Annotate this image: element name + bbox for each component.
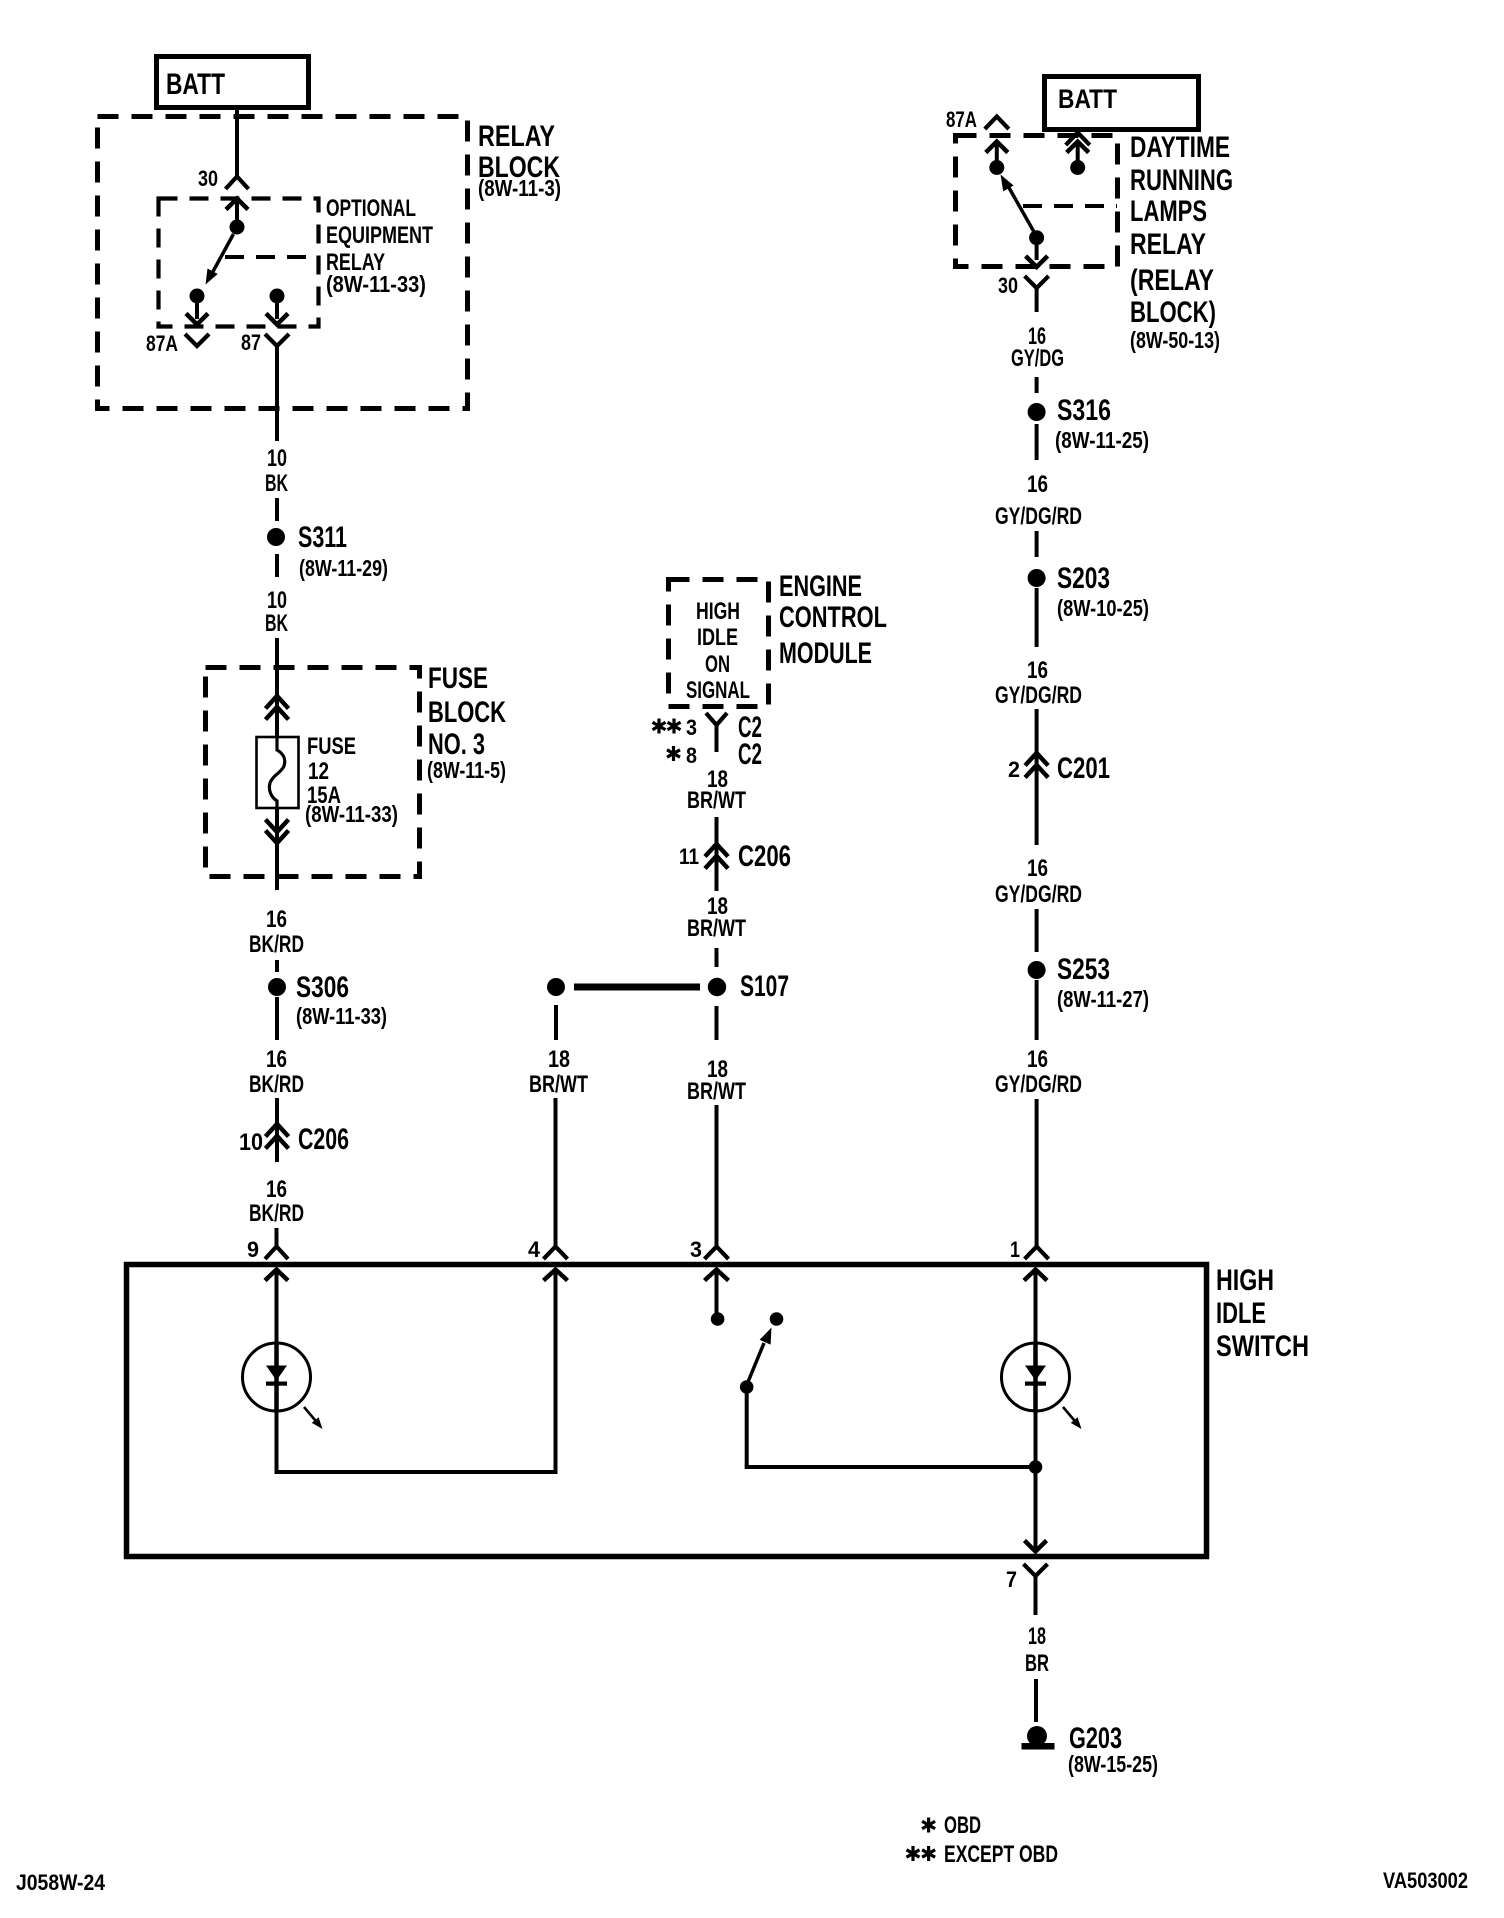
wire into ground G203 bbox=[1034, 1679, 1038, 1722]
svg-text:BK/RD: BK/RD bbox=[249, 1200, 304, 1227]
svg-text:87: 87 bbox=[241, 330, 261, 355]
svg-text:FUSE: FUSE bbox=[307, 733, 356, 760]
svg-text:30: 30 bbox=[198, 166, 218, 191]
svg-text:EQUIPMENT: EQUIPMENT bbox=[326, 222, 433, 249]
wire label 10 BK (lower) bbox=[265, 587, 288, 637]
fuse F12 element (s-curve) bbox=[269, 737, 284, 808]
splice S203 bbox=[1028, 569, 1046, 587]
wire segment above C206 left bbox=[275, 1098, 279, 1124]
splice S311 bbox=[267, 528, 285, 546]
wire label 16 GY/DG/RD (3) bbox=[995, 855, 1082, 908]
svg-text:C206: C206 bbox=[738, 840, 791, 873]
label G203 (8W-15-25) bbox=[1068, 1722, 1158, 1777]
pin 3 terminal arrow inside box bbox=[705, 1270, 729, 1314]
svg-text:RELAY: RELAY bbox=[478, 120, 555, 153]
relay internal dashed divider bbox=[225, 255, 318, 259]
wire segment above S107 bbox=[715, 948, 719, 967]
svg-text:(8W-11-5): (8W-11-5) bbox=[427, 757, 506, 783]
svg-text:FUSE: FUSE bbox=[428, 662, 488, 695]
label DAYTIME RUNNING LAMPS RELAY (RELAY BLOCK) (8W-50-13) bbox=[1130, 131, 1233, 353]
switch blade S1 bbox=[747, 1328, 772, 1386]
svg-text:IDLE: IDLE bbox=[697, 624, 738, 651]
wire LED2 through junction to pin 7 bbox=[1034, 1411, 1038, 1549]
power feed box BATT (right) bbox=[1045, 77, 1199, 130]
wire label 18 BR/WT (1) bbox=[687, 766, 746, 814]
indicator lamp LED2 (right) bbox=[1002, 1343, 1070, 1411]
wire segment above S306 bbox=[275, 960, 279, 972]
relay U2 coil-side contact node bbox=[1070, 160, 1085, 175]
svg-text:OPTIONAL: OPTIONAL bbox=[326, 195, 416, 222]
svg-text:(8W-15-25): (8W-15-25) bbox=[1068, 1751, 1158, 1777]
svg-text:C2: C2 bbox=[738, 738, 762, 771]
svg-text:8: 8 bbox=[686, 743, 697, 768]
power feed box BATT (left) bbox=[157, 57, 309, 108]
label ENGINE CONTROL MODULE bbox=[779, 570, 887, 670]
svg-text:3: 3 bbox=[690, 1237, 702, 1262]
svg-text:S253: S253 bbox=[1057, 953, 1110, 986]
svg-text:BR/WT: BR/WT bbox=[687, 1078, 746, 1105]
switch throw contact node bbox=[770, 1312, 784, 1326]
connector half (female) 87A right bbox=[985, 117, 1009, 130]
svg-text:MODULE: MODULE bbox=[779, 637, 872, 670]
relay U2 pin-30 terminal arrow bbox=[1026, 244, 1048, 267]
wire label 18 BR/WT (2) bbox=[687, 893, 746, 942]
svg-text:(8W-11-3): (8W-11-3) bbox=[478, 175, 561, 201]
wire segment below S306 bbox=[275, 997, 279, 1040]
splice S107 bbox=[708, 978, 726, 996]
svg-text:BR/WT: BR/WT bbox=[687, 787, 746, 814]
wire branch down to pin 4 bbox=[554, 1098, 558, 1228]
svg-text:HIGH: HIGH bbox=[696, 598, 740, 625]
wire segment below S253 bbox=[1035, 980, 1039, 1040]
relay U2 87A terminal arrow bbox=[986, 142, 1008, 162]
connector half (female) 87 bbox=[265, 334, 289, 346]
svg-text:BK/RD: BK/RD bbox=[249, 931, 304, 958]
wire LED1 to pin 4 (L-path) bbox=[275, 1269, 556, 1474]
splice S253 bbox=[1028, 961, 1046, 979]
branch wire S107 to left bbox=[574, 984, 700, 991]
svg-text:DAYTIME: DAYTIME bbox=[1130, 131, 1230, 164]
svg-text:ON: ON bbox=[705, 651, 730, 678]
wire segment below S107 bbox=[715, 1006, 719, 1040]
label OPTIONAL EQUIPMENT RELAY (8W-11-33) bbox=[326, 195, 433, 297]
relay internal dashed divider (right) bbox=[1023, 204, 1117, 208]
svg-text:7: 7 bbox=[1006, 1567, 1017, 1592]
label HIGH IDLE ON SIGNAL bbox=[686, 598, 750, 704]
wire BATT to relay pin 30 bbox=[235, 107, 239, 176]
svg-text:11: 11 bbox=[679, 844, 699, 869]
svg-text:LAMPS: LAMPS bbox=[1130, 195, 1207, 228]
svg-text:ENGINE: ENGINE bbox=[779, 570, 862, 603]
svg-text:S311: S311 bbox=[298, 521, 347, 554]
wire label 16 GY/DG bbox=[1011, 323, 1064, 372]
wire label 16 BK/RD (3) bbox=[249, 1176, 304, 1227]
label S203 (8W-10-25) bbox=[1057, 562, 1149, 621]
label RELAY BLOCK (8W-11-3) bbox=[478, 120, 561, 201]
branch node left of S107 bbox=[547, 978, 565, 996]
wire down to pin 3 bbox=[715, 1105, 719, 1247]
pin 9 terminal arrow inside box bbox=[265, 1270, 288, 1344]
connector C206 chevrons (middle) bbox=[705, 840, 728, 891]
relay U2 BATT terminal arrow bbox=[1067, 142, 1089, 162]
relay 87 terminal arrow bbox=[266, 303, 288, 325]
label HIGH IDLE SWITCH bbox=[1216, 1264, 1309, 1363]
wire segment below S316 bbox=[1035, 424, 1039, 460]
svg-text:RUNNING: RUNNING bbox=[1130, 164, 1233, 197]
wire label 16 GY/DG/RD (2) bbox=[995, 657, 1082, 709]
switch pivot node bbox=[740, 1380, 754, 1394]
svg-text:S306: S306 bbox=[296, 971, 349, 1004]
ground G203 symbol bbox=[1022, 1726, 1055, 1750]
wire segment above C201 bbox=[1035, 709, 1039, 753]
svg-text:(8W-11-33): (8W-11-33) bbox=[305, 801, 398, 827]
legend marker * at pin 8 bbox=[667, 746, 680, 761]
high idle switch box bbox=[127, 1265, 1207, 1557]
relay U1 contact 87 node bbox=[270, 289, 285, 304]
pin 7 terminal arrow inside box bbox=[1025, 1541, 1047, 1552]
wire label 10 BK (upper) bbox=[265, 445, 288, 497]
svg-text:SWITCH: SWITCH bbox=[1216, 1330, 1309, 1363]
svg-text:18: 18 bbox=[548, 1046, 570, 1073]
junction node below LED2 bbox=[1029, 1460, 1043, 1474]
relay U2 switch blade bbox=[1001, 175, 1034, 232]
relay U1 switch blade bbox=[206, 234, 234, 285]
svg-text:18: 18 bbox=[1028, 1623, 1046, 1650]
svg-text:12: 12 bbox=[308, 758, 329, 785]
svg-text:BLOCK): BLOCK) bbox=[1130, 296, 1216, 329]
label FUSE BLOCK NO. 3 (8W-11-5) bbox=[427, 662, 506, 783]
connector half (female) at relay pin 30 bbox=[226, 177, 249, 190]
relay 87A terminal arrow bbox=[186, 303, 208, 325]
connector C2 half (female) below ECM bbox=[706, 713, 727, 752]
label FUSE 12 15A (8W-11-33) bbox=[305, 733, 398, 827]
svg-text:16: 16 bbox=[1027, 855, 1048, 882]
svg-text:(8W-11-33): (8W-11-33) bbox=[296, 1003, 387, 1029]
svg-text:S203: S203 bbox=[1057, 562, 1110, 595]
svg-text:IDLE: IDLE bbox=[1216, 1297, 1266, 1330]
svg-text:16: 16 bbox=[1027, 1046, 1048, 1073]
fuse block no.3 dashed box bbox=[206, 668, 420, 877]
svg-text:9: 9 bbox=[247, 1237, 259, 1262]
svg-text:BK: BK bbox=[265, 610, 288, 637]
svg-text:EXCEPT OBD: EXCEPT OBD bbox=[944, 1841, 1058, 1868]
svg-text:16: 16 bbox=[1027, 657, 1048, 684]
svg-text:16: 16 bbox=[1027, 471, 1048, 498]
wire segment above S311 bbox=[275, 498, 279, 521]
splice S316 bbox=[1028, 403, 1046, 421]
svg-text:(8W-11-25): (8W-11-25) bbox=[1055, 427, 1149, 453]
svg-text:BLOCK: BLOCK bbox=[428, 696, 506, 729]
svg-text:1: 1 bbox=[1010, 1237, 1020, 1262]
svg-text:GY/DG/RD: GY/DG/RD bbox=[995, 682, 1082, 709]
svg-text:2: 2 bbox=[1008, 757, 1020, 782]
svg-text:OBD: OBD bbox=[944, 1812, 981, 1839]
wire segment below S203 bbox=[1035, 588, 1039, 647]
wire down to pin 1 bbox=[1035, 1099, 1039, 1247]
optional equipment relay dashed box bbox=[159, 199, 319, 327]
svg-text:S316: S316 bbox=[1057, 394, 1111, 427]
svg-text:16: 16 bbox=[266, 1046, 287, 1073]
switch fixed contact node (pin3) bbox=[711, 1312, 725, 1326]
svg-text:GY/DG/RD: GY/DG/RD bbox=[995, 503, 1082, 530]
wire label 16 BK/RD (2) bbox=[249, 1046, 304, 1098]
daytime running lamps relay dashed box bbox=[956, 136, 1118, 267]
svg-text:(8W-10-25): (8W-10-25) bbox=[1057, 595, 1149, 621]
connector half (female) pin 30 right bbox=[1025, 276, 1049, 312]
connector C206 chevrons (left) bbox=[266, 1124, 289, 1162]
wire segment below branch node bbox=[554, 1005, 558, 1040]
connector half below pin 7 bbox=[1024, 1564, 1048, 1615]
connector double chevron into fuse bbox=[266, 696, 289, 737]
label S253 (8W-11-27) bbox=[1057, 953, 1149, 1012]
svg-text:RELAY: RELAY bbox=[1130, 228, 1206, 261]
wire into fuse block bbox=[275, 638, 279, 700]
relay U1 contact 87A node bbox=[190, 289, 205, 304]
wire segment above S203 bbox=[1035, 531, 1039, 557]
legend marker ** at pin 3 bbox=[653, 719, 681, 734]
svg-text:VA503002: VA503002 bbox=[1383, 1868, 1468, 1893]
legend marker ** EXCEPT OBD bbox=[907, 1841, 1059, 1868]
svg-text:30: 30 bbox=[998, 273, 1018, 298]
fuse F12 body bbox=[257, 737, 299, 808]
engine control module dashed box bbox=[669, 580, 769, 707]
svg-text:BK/RD: BK/RD bbox=[249, 1071, 304, 1098]
label S311 (8W-11-29) bbox=[298, 521, 388, 581]
wire segment above S253 bbox=[1035, 909, 1039, 952]
wire label 18 BR/WT (branch) bbox=[529, 1046, 588, 1098]
svg-text:4: 4 bbox=[528, 1237, 541, 1262]
svg-text:BR/WT: BR/WT bbox=[687, 915, 746, 942]
wire 87 down to label bbox=[275, 346, 279, 441]
svg-text:BK: BK bbox=[265, 470, 288, 497]
relay U2 common node bbox=[1029, 230, 1044, 245]
wire label 16 GY/DG/RD (4) bbox=[995, 1046, 1082, 1098]
wire stem into pin 4 bbox=[554, 1228, 558, 1247]
svg-text:GY/DG/RD: GY/DG/RD bbox=[995, 1071, 1082, 1098]
svg-text:BR: BR bbox=[1025, 1650, 1049, 1677]
wire label 18 BR bbox=[1025, 1623, 1049, 1677]
wire label 16 GY/DG/RD (1) bbox=[995, 471, 1082, 530]
label S306 (8W-11-33) bbox=[296, 971, 387, 1029]
connector half above pin 1 bbox=[1025, 1247, 1049, 1260]
splice S306 bbox=[268, 978, 286, 996]
wire stem into pin 9 bbox=[275, 1228, 279, 1247]
svg-text:10: 10 bbox=[239, 1129, 263, 1156]
connector half (female) 87A bbox=[185, 334, 209, 346]
svg-text:BR/WT: BR/WT bbox=[529, 1071, 588, 1098]
svg-text:GY/DG/RD: GY/DG/RD bbox=[995, 881, 1082, 908]
svg-text:10: 10 bbox=[267, 445, 287, 472]
connector half (female) at BATT right bbox=[1066, 133, 1090, 146]
relay U1 pin-30 terminal arrow bbox=[226, 199, 248, 222]
legend marker * OBD bbox=[922, 1812, 981, 1839]
svg-text:(RELAY: (RELAY bbox=[1130, 264, 1214, 297]
wire segment below S311 bbox=[275, 554, 279, 577]
svg-text:87A: 87A bbox=[146, 331, 178, 356]
svg-text:C206: C206 bbox=[298, 1123, 349, 1156]
svg-text:(8W-11-29): (8W-11-29) bbox=[299, 555, 388, 581]
svg-text:J058W-24: J058W-24 bbox=[16, 1870, 106, 1895]
relay U2 contact 87A node bbox=[989, 160, 1004, 175]
wire segment above S316 bbox=[1035, 377, 1039, 393]
wire label 18 BR/WT (3) bbox=[687, 1056, 746, 1105]
label S316 (8W-11-25) bbox=[1055, 394, 1149, 453]
indicator lamp LED1 (left) bbox=[243, 1343, 311, 1411]
svg-text:BATT: BATT bbox=[1058, 84, 1117, 114]
wire switch pivot to junction bbox=[745, 1393, 1036, 1467]
svg-text:(8W-11-27): (8W-11-27) bbox=[1057, 986, 1149, 1012]
pin 4 terminal arrow inside box bbox=[544, 1270, 568, 1281]
svg-text:16: 16 bbox=[266, 906, 287, 933]
svg-text:GY/DG: GY/DG bbox=[1011, 345, 1064, 372]
svg-text:BATT: BATT bbox=[166, 68, 225, 101]
pin 1 terminal arrow inside box bbox=[1024, 1270, 1047, 1344]
svg-text:S107: S107 bbox=[740, 970, 789, 1003]
svg-text:16: 16 bbox=[266, 1176, 287, 1203]
svg-text:87A: 87A bbox=[946, 107, 977, 132]
wire label 16 BK/RD (1) bbox=[249, 906, 304, 958]
svg-text:C201: C201 bbox=[1057, 752, 1110, 785]
wire segment above C206 middle bbox=[715, 817, 719, 840]
svg-text:(8W-50-13): (8W-50-13) bbox=[1130, 327, 1220, 353]
svg-text:3: 3 bbox=[686, 715, 697, 740]
connector double chevron out of fuse bbox=[266, 808, 289, 890]
svg-text:SIGNAL: SIGNAL bbox=[686, 677, 750, 704]
relay U1 common contact node bbox=[230, 220, 245, 235]
relay block dashed box bbox=[98, 117, 468, 409]
svg-text:HIGH: HIGH bbox=[1216, 1264, 1274, 1297]
connector half above pin 9 bbox=[265, 1247, 288, 1260]
svg-text:(8W-11-33): (8W-11-33) bbox=[326, 271, 426, 297]
connector C201 chevrons bbox=[1025, 753, 1048, 845]
connector half above pin 3 bbox=[705, 1247, 729, 1260]
svg-text:CONTROL: CONTROL bbox=[779, 601, 887, 634]
connector half above pin 4 bbox=[544, 1247, 568, 1260]
